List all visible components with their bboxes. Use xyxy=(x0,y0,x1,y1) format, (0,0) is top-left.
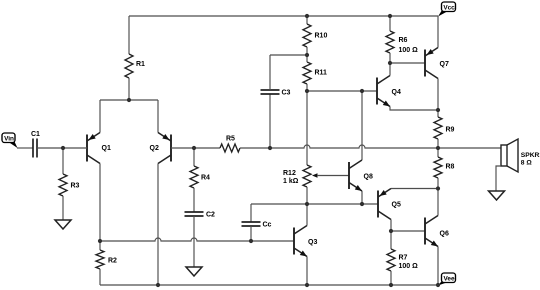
svg-text:R10: R10 xyxy=(315,33,328,40)
svg-text:Cc: Cc xyxy=(263,222,272,229)
svg-text:Q2: Q2 xyxy=(150,145,159,152)
svg-text:1 kΩ: 1 kΩ xyxy=(283,178,299,185)
svg-text:100 Ω: 100 Ω xyxy=(399,263,419,270)
svg-text:Q1: Q1 xyxy=(102,145,111,152)
svg-text:Q6: Q6 xyxy=(440,231,449,238)
svg-text:Q7: Q7 xyxy=(440,61,449,68)
svg-text:R6: R6 xyxy=(399,37,408,44)
svg-text:R7: R7 xyxy=(399,255,408,262)
svg-text:Q4: Q4 xyxy=(392,89,401,96)
svg-text:Vin: Vin xyxy=(4,135,14,142)
svg-text:R8: R8 xyxy=(446,164,455,171)
svg-text:R5: R5 xyxy=(226,136,235,143)
svg-text:C2: C2 xyxy=(206,212,215,219)
svg-text:C3: C3 xyxy=(282,90,291,97)
svg-text:8 Ω: 8 Ω xyxy=(521,160,533,167)
svg-text:R4: R4 xyxy=(201,175,210,182)
svg-text:Q3: Q3 xyxy=(308,239,317,246)
svg-text:100 Ω: 100 Ω xyxy=(399,47,419,54)
svg-text:R11: R11 xyxy=(315,70,328,77)
svg-text:C1: C1 xyxy=(31,131,40,138)
svg-text:Vcc: Vcc xyxy=(443,4,455,11)
svg-text:R1: R1 xyxy=(136,61,145,68)
svg-text:SPKR1: SPKR1 xyxy=(521,152,540,159)
svg-text:R9: R9 xyxy=(446,127,455,134)
svg-text:R12: R12 xyxy=(283,170,296,177)
svg-text:R3: R3 xyxy=(71,183,80,190)
svg-text:R2: R2 xyxy=(108,258,117,265)
svg-text:Vee: Vee xyxy=(443,275,454,282)
svg-text:Q8: Q8 xyxy=(364,174,373,181)
svg-text:Q5: Q5 xyxy=(392,202,401,209)
